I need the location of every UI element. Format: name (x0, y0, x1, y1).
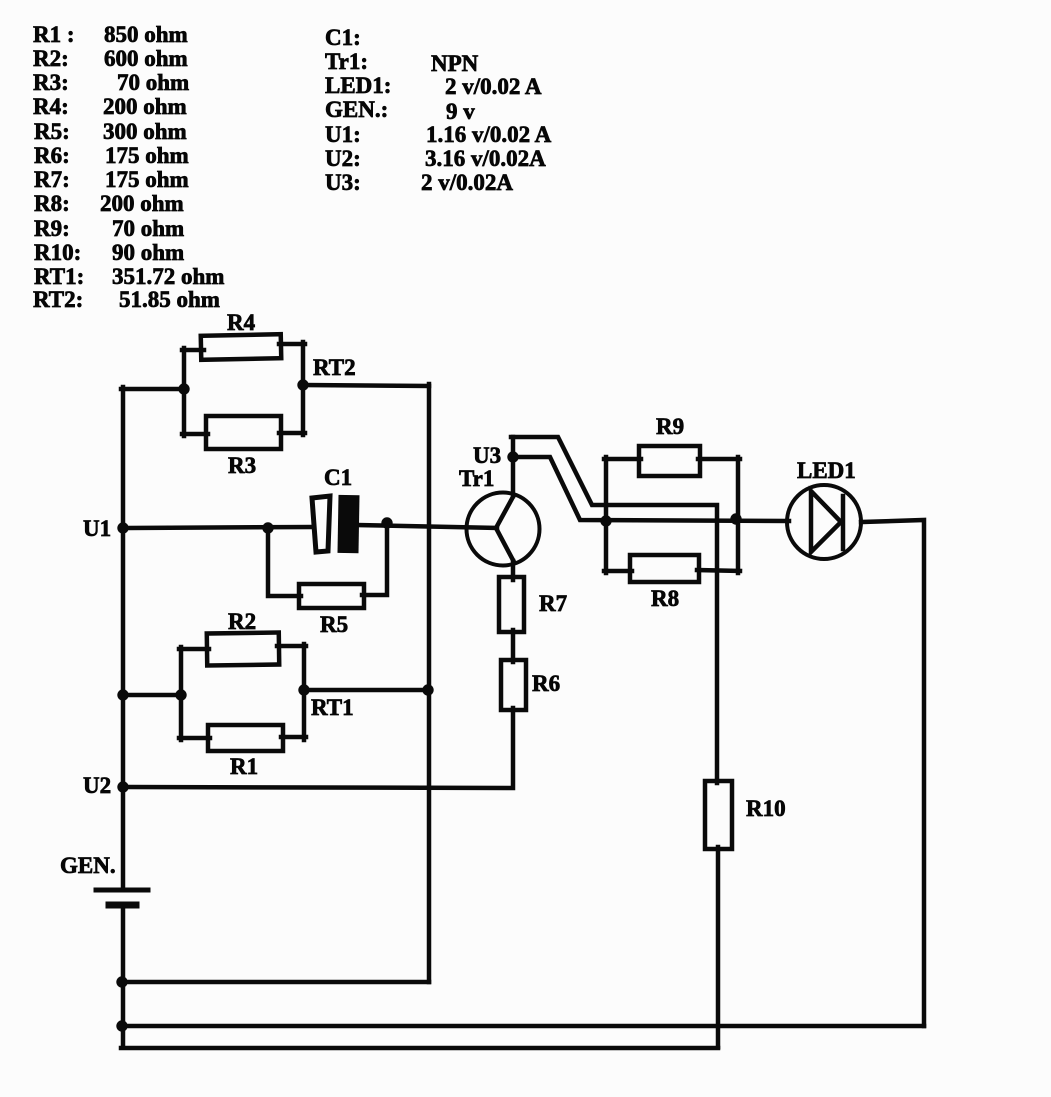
wire R7 to R6 (511, 630, 516, 662)
resistor R7 (499, 577, 524, 632)
svg-text:175 ohm: 175 ohm (105, 143, 189, 168)
svg-text:R7: R7 (539, 591, 567, 616)
svg-text:C1:: C1: (325, 25, 361, 50)
svg-text:2 v/0.02A: 2 v/0.02A (421, 170, 513, 195)
wire left spine vertical (121, 387, 126, 890)
node dot RT1 right (422, 684, 433, 695)
wire top-left horizontal (121, 387, 184, 392)
resistor R10 (705, 781, 732, 849)
svg-text:GEN.: GEN. (60, 853, 116, 878)
battery GEN long plate (96, 888, 148, 893)
node dot RT2 (297, 379, 308, 390)
svg-text:R5: R5 (320, 612, 348, 637)
wire bottom 1 (121, 980, 429, 985)
wire C1 branch down (268, 526, 301, 596)
wire spine to R2R1 branch (123, 693, 181, 698)
parts list right column (325, 25, 552, 195)
wire R4 left stub (182, 348, 204, 353)
wire R3 right stub (279, 431, 305, 436)
svg-text:9 v: 9 v (446, 99, 475, 124)
wire R2R1 right branch vertical (302, 644, 307, 740)
svg-text:U1: U1 (83, 516, 111, 541)
wire R9 right stub (698, 457, 740, 462)
svg-text:R3:: R3: (33, 70, 69, 95)
node dot bottom 2 (116, 1020, 127, 1031)
wire R1 left stub (179, 736, 210, 741)
svg-text:R10:: R10: (34, 240, 81, 265)
wire R5 right riser (362, 521, 387, 595)
svg-text:600 ohm: 600 ohm (104, 46, 188, 71)
svg-text:300 ohm: 300 ohm (103, 119, 187, 144)
transistor Q1 circle (467, 493, 540, 566)
svg-text:U3: U3 (473, 443, 501, 468)
svg-text:70 ohm: 70 ohm (112, 216, 184, 241)
svg-text:U1:: U1: (325, 122, 361, 147)
wire R4 right stub (279, 342, 305, 347)
svg-text:200 ohm: 200 ohm (103, 94, 187, 119)
svg-text:R2: R2 (228, 609, 256, 634)
LED1 circle (787, 485, 861, 559)
wire U1 to transistor base (357, 525, 497, 528)
svg-text:R5:: R5: (34, 119, 70, 144)
wire R1 right stub (281, 735, 306, 740)
wire LED1 right down (861, 520, 924, 1026)
svg-text:R8: R8 (651, 586, 679, 611)
wire bottom 3 (121, 1046, 718, 1051)
svg-text:175 ohm: 175 ohm (105, 167, 189, 192)
resistor R6 (501, 660, 526, 710)
svg-text:51.85 ohm: 51.85 ohm (119, 287, 220, 312)
node dot RT1 (298, 684, 309, 695)
wire emitter down (511, 561, 516, 580)
svg-text:70 ohm: 70 ohm (117, 70, 189, 95)
node U2 wire (123, 708, 513, 788)
svg-text:2 v/0.02 A: 2 v/0.02 A (445, 74, 542, 99)
svg-text:R6: R6 (532, 671, 560, 696)
svg-text:R6:: R6: (34, 143, 70, 168)
LED1 cathode bar (841, 496, 846, 549)
wire left spine lower vertical (121, 905, 126, 1047)
svg-text:200 ohm: 200 ohm (100, 191, 184, 216)
svg-text:Tr1:: Tr1: (325, 49, 368, 74)
wire R2 right stub (277, 644, 306, 649)
transistor internal emitter (496, 528, 514, 562)
svg-text:RT2:: RT2: (33, 287, 83, 312)
svg-text:3.16 v/0.02A: 3.16 v/0.02A (425, 146, 546, 171)
svg-text:U2: U2 (83, 773, 111, 798)
wire A collector to R10 (511, 437, 717, 783)
capacitor C1 right plate (337, 495, 359, 553)
wire R9 left stub (604, 457, 641, 462)
svg-text:R8:: R8: (34, 191, 70, 216)
LED1 triangle (811, 491, 841, 552)
wire collector up (511, 437, 516, 496)
wire R8 left stub (604, 569, 632, 574)
svg-text:R2:: R2: (33, 46, 69, 71)
svg-text:Tr1: Tr1 (459, 466, 494, 491)
node dot bottom 1 (116, 976, 127, 987)
svg-text:R7:: R7: (34, 167, 70, 192)
wire R9R8 right vertical (736, 457, 741, 573)
svg-text:NPN: NPN (431, 51, 479, 76)
svg-text:R9:: R9: (34, 216, 70, 241)
svg-text:1.16 v/0.02 A: 1.16 v/0.02 A (426, 122, 552, 147)
wire R2R1 left branch vertical (179, 647, 184, 740)
wire bottom 2 (121, 1024, 924, 1029)
svg-text:R4: R4 (227, 310, 256, 335)
wire R4R3 right branch vertical (301, 342, 306, 435)
svg-text:GEN.:: GEN.: (325, 97, 388, 122)
node RT2 wire (303, 385, 429, 386)
node dot C1 right (381, 517, 392, 528)
node dot left of R4R3 (178, 383, 189, 394)
svg-text:C1: C1 (324, 465, 352, 490)
wire R3 left stub (182, 432, 208, 437)
resistor R9 (639, 446, 700, 476)
wire R9R8 left vertical (604, 457, 609, 573)
wire R4R3 left branch vertical (182, 348, 187, 436)
node dot R9R8 left (600, 515, 611, 526)
resistor R1 (208, 725, 283, 751)
capacitor C1 left plate (312, 496, 330, 552)
svg-text:LED1:: LED1: (325, 73, 391, 98)
resistor R5 (299, 584, 364, 608)
wire R10 lower (716, 847, 721, 1047)
resistor R4 (201, 334, 281, 360)
wire R8 right stub (697, 570, 740, 571)
node dot U3 (507, 451, 518, 462)
svg-text:R3: R3 (228, 453, 256, 478)
svg-text:RT1: RT1 (311, 695, 354, 720)
node RT1 wire (304, 688, 428, 693)
node dot R2R1 left (175, 689, 186, 700)
svg-text:RT1:: RT1: (34, 264, 84, 289)
parts list left column (33, 22, 224, 312)
svg-text:U2:: U2: (325, 146, 361, 171)
node dot spine R2R1 (117, 689, 128, 700)
svg-text:U3:: U3: (325, 170, 361, 195)
svg-text:R1: R1 (230, 754, 258, 779)
svg-text:850 ohm: 850 ohm (104, 22, 188, 47)
resistor R8 (630, 555, 699, 582)
transistor internal collector (496, 495, 514, 528)
svg-text:R1 :: R1 : (33, 22, 75, 47)
svg-text:R10: R10 (746, 796, 786, 821)
wire right vertical A (427, 384, 432, 982)
svg-text:RT2: RT2 (313, 355, 356, 380)
node dot C1 left (262, 522, 273, 533)
svg-text:90 ohm: 90 ohm (112, 240, 184, 265)
node dot U1 (117, 522, 128, 533)
node dot U2 (117, 781, 128, 792)
resistor R3 (206, 416, 281, 449)
svg-text:351.72 ohm: 351.72 ohm (112, 264, 224, 289)
node dot R9R8 right (730, 513, 741, 524)
svg-text:LED1: LED1 (797, 458, 856, 483)
svg-text:R4:: R4: (33, 94, 69, 119)
wire R2 left stub (179, 647, 209, 652)
resistor R2 (207, 632, 279, 665)
battery GEN short plate (109, 902, 136, 909)
svg-text:R9: R9 (656, 414, 684, 439)
wire B U3 to LED1 (513, 457, 789, 521)
node U1 wire (123, 527, 312, 528)
